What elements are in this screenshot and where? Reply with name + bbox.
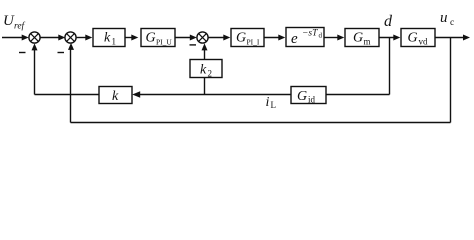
svg-text:c: c [450,18,454,28]
svg-text:G: G [353,31,363,46]
wire input arrow to sum1 [2,35,29,41]
svg-text:−sT: −sT [302,29,318,39]
wire d node to block G_id [326,94,390,96]
block G_PI_I [231,29,264,47]
minus sign at sum3 [190,44,197,45]
svg-text:id: id [308,95,316,105]
wire inner feedback up to sum1 [32,43,38,94]
svg-text:G: G [297,89,307,104]
label i_L [266,95,277,110]
label U_ref [3,13,26,32]
wire sum3 to block G_PI_I [208,35,230,41]
svg-text:k: k [112,89,119,104]
svg-text:2: 2 [208,69,213,79]
svg-text:PI_U: PI_U [156,37,172,46]
svg-text:vd: vd [419,36,429,46]
wire e^-sTd to block G_m [324,35,344,41]
svg-text:k: k [104,31,111,46]
summing junction sum1 [29,32,40,43]
wire G_PI_I to block e^-sTd [264,35,285,41]
svg-text:PI_I: PI_I [247,37,260,46]
wire sum1 to sum2 [40,35,65,41]
summing junction sum2 [65,32,76,43]
wire outer feedback bottom [71,122,451,124]
block e^-sTd delay [286,28,324,48]
minus sign at sum1 [19,52,26,53]
block G_id [291,87,326,105]
svg-text:1: 1 [112,36,117,46]
block G_m [345,29,379,47]
svg-text:L: L [271,100,277,110]
block k1 [93,29,125,47]
block k [99,87,132,105]
wire output u_c [435,35,470,41]
svg-text:u: u [440,10,448,26]
svg-text:G: G [236,31,246,46]
wire k output to left [35,94,100,96]
wire G_id to block k with arrow [132,91,291,98]
svg-text:k: k [200,63,207,78]
block G_vd [401,29,435,47]
svg-text:G: G [408,31,418,46]
wire sum2 to block k1 [77,35,93,41]
svg-text:ref: ref [14,21,26,32]
block G_PI_U [141,29,175,47]
summing junction sum3 [197,32,208,43]
wire G_m to block G_vd with node d [379,35,400,41]
svg-text:e: e [291,31,298,47]
node u_c branch wire down [450,38,452,123]
wire k1 to block G_PI_U [125,35,138,41]
minus sign at sum2 [58,52,65,53]
wire k2 up to sum3 [202,43,208,59]
svg-text:m: m [364,36,371,46]
svg-text:d: d [319,32,323,40]
node d branch wire down [389,38,391,95]
svg-text:d: d [384,13,393,30]
svg-text:i: i [266,95,270,110]
label u_c [440,10,454,28]
block k2 [190,60,222,79]
wire outer feedback up to sum2 [68,43,74,123]
wire G_PI_U to sum3 [175,35,197,41]
wire tap to k2 [204,78,206,95]
svg-text:G: G [146,31,156,46]
